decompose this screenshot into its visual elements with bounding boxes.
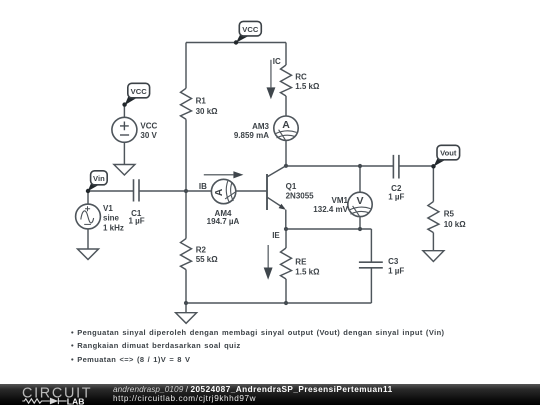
svg-text:VCC: VCC	[242, 25, 259, 34]
svg-text:VM1: VM1	[332, 196, 349, 205]
svg-text:55 kΩ: 55 kΩ	[196, 255, 219, 264]
svg-text:R1: R1	[196, 97, 207, 106]
svg-text:R5: R5	[444, 210, 455, 219]
svg-text:VCC: VCC	[140, 122, 157, 131]
svg-text:A: A	[214, 188, 225, 196]
svg-text:R2: R2	[196, 245, 207, 254]
svg-text:1.5 kΩ: 1.5 kΩ	[295, 82, 320, 91]
svg-text:Vin: Vin	[93, 174, 105, 183]
svg-text:194.7 µA: 194.7 µA	[207, 217, 240, 226]
svg-text:2N3055: 2N3055	[286, 192, 315, 201]
svg-text:1 µF: 1 µF	[388, 192, 404, 201]
svg-text:1 µF: 1 µF	[388, 266, 404, 275]
svg-text:sine: sine	[103, 214, 120, 223]
svg-text:IC: IC	[273, 57, 281, 66]
svg-text:LAB: LAB	[67, 396, 85, 405]
svg-text:RC: RC	[295, 73, 307, 82]
svg-text:V1: V1	[103, 204, 113, 213]
svg-text:30 kΩ: 30 kΩ	[196, 107, 219, 116]
svg-text:1 kHz: 1 kHz	[103, 223, 124, 232]
svg-text:A: A	[282, 119, 290, 131]
svg-text:C3: C3	[388, 257, 399, 266]
svg-text:VCC: VCC	[131, 87, 148, 96]
svg-text:AM3: AM3	[252, 122, 269, 131]
svg-text:9.859 mA: 9.859 mA	[234, 131, 269, 140]
svg-text:Q1: Q1	[286, 182, 297, 191]
svg-text:30 V: 30 V	[140, 131, 157, 140]
svg-text:132.4 mV: 132.4 mV	[313, 205, 348, 214]
svg-text:10 kΩ: 10 kΩ	[444, 220, 467, 229]
svg-text:IE: IE	[272, 231, 280, 240]
svg-text:V: V	[356, 195, 363, 207]
svg-text:IB: IB	[199, 182, 207, 191]
svg-text:1 µF: 1 µF	[129, 217, 145, 226]
svg-text:Vout: Vout	[440, 149, 457, 158]
svg-text:1.5 kΩ: 1.5 kΩ	[295, 268, 320, 277]
svg-text:RE: RE	[295, 257, 307, 266]
